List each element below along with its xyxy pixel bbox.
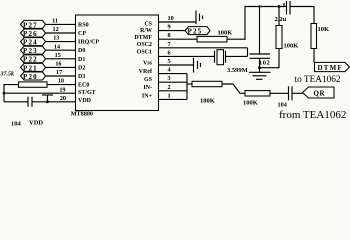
wire R4 to C3 [270,92,289,94]
svg-text:2: 2 [168,84,171,91]
svg-text:11: 11 [52,18,58,25]
wire OSC1 pin 6 [159,55,215,57]
port P26 [21,29,46,38]
svg-text:CS: CS [144,22,152,28]
port P25 [185,27,210,36]
wire GS pin 3 [159,81,188,83]
svg-text:18: 18 [58,78,64,85]
node rail/102 [258,5,260,7]
svg-text:P25: P25 [188,28,203,36]
wire pin19 ST/GT [4,92,76,94]
wire VRef pin 4 [159,73,188,75]
wire R2 to top rail [227,7,287,40]
resistor R5 100K vertical [276,7,298,50]
node junction ESt/StGT [3,92,6,95]
resistor R4 100K [243,91,270,107]
svg-text:10: 10 [168,15,174,22]
svg-text:3: 3 [168,75,171,82]
crystal Y1 3.599M [215,50,248,74]
capacitor C1 104 [11,97,32,128]
svg-text:P27: P27 [23,21,38,29]
svg-text:1: 1 [168,92,171,99]
node rail/100K [278,5,281,8]
ground under 102 [249,68,271,80]
svg-text:P23: P23 [23,47,38,55]
svg-text:14: 14 [54,43,60,50]
svg-text:100K: 100K [218,30,233,37]
svg-text:100K: 100K [243,100,258,107]
svg-text:EC0: EC0 [78,83,89,89]
svg-text:180K: 180K [200,98,215,105]
wire P23 to chip [46,49,76,51]
port P23 [21,46,46,55]
power VDD symbol [29,95,53,127]
svg-text:10K: 10K [318,26,330,33]
svg-text:CP: CP [78,31,86,37]
resistor R2 100K [197,30,232,42]
node 102 bottom [258,66,261,69]
svg-text:12: 12 [53,26,59,33]
IC U1 MT8880 chip body [71,15,159,118]
wire P27 to chip [46,23,76,25]
wire crystal right [226,55,248,57]
port P22 [21,55,46,64]
svg-text:OSC2: OSC2 [137,42,152,48]
svg-text:37.5k: 37.5k [0,71,14,77]
svg-text:DTMF: DTMF [318,64,343,72]
ground bars at CS [196,11,203,25]
svg-text:16: 16 [55,61,61,68]
svg-text:IN-: IN- [143,85,152,91]
wire R1 to pin18 EC0 [47,84,76,86]
wire OSC2 pin 7 [159,47,248,49]
svg-text:VDD: VDD [29,120,43,127]
svg-text:ST/GT: ST/GT [78,90,96,96]
svg-text:15: 15 [55,52,61,59]
svg-text:R/W: R/W [140,28,152,34]
svg-text:104: 104 [11,121,22,128]
wire Vss pin 5 [159,64,194,66]
svg-text:GS: GS [144,77,153,83]
wire CS pin 10 [159,21,197,23]
svg-text:13: 13 [53,35,59,42]
wire 180K diagonal down [222,84,245,93]
svg-text:D3: D3 [78,74,85,80]
svg-text:D2: D2 [78,65,85,71]
wire IN- pin 2 [159,90,188,92]
svg-text:8: 8 [168,32,171,39]
svg-text:5: 5 [168,58,171,65]
port P27 [21,20,46,29]
svg-text:Vss: Vss [143,61,153,67]
ground bars at Vss [194,58,201,73]
wire P20 to chip [46,75,76,77]
svg-text:to TEA1062: to TEA1062 [295,75,341,85]
svg-text:DTMF: DTMF [134,35,152,41]
wire P22 to chip [46,58,76,60]
svg-text:VDD: VDD [78,98,92,104]
svg-text:P26: P26 [23,30,38,38]
capacitor C3 104 [278,86,293,108]
wire feedback vertical [186,74,188,100]
svg-text:19: 19 [59,86,65,93]
svg-text:OSC1: OSC1 [137,50,152,56]
svg-text:P21: P21 [23,64,38,72]
wire OSC loop vertical [247,48,249,57]
svg-text:100K: 100K [284,43,299,50]
wire C1 to chip VDD pin20 [32,101,76,103]
svg-text:QR: QR [314,90,326,98]
capacitor C2 2.2u electrolytic [275,1,291,23]
svg-text:2.2u: 2.2u [275,16,287,23]
wire R/W pin 9 [159,30,186,32]
wire R6 to DTMF port [313,49,315,63]
svg-text:MT8880: MT8880 [71,111,93,118]
svg-text:4: 4 [168,67,171,74]
wire R1 left corner down [4,85,19,102]
wire P21 to chip [46,66,76,68]
port P24 [21,38,46,47]
resistor R3 180K [192,81,222,104]
port DTMF output [315,62,350,71]
svg-text:RS0: RS0 [78,22,89,28]
wire node to R5 [260,49,280,68]
port P20 [21,72,46,81]
svg-text:104: 104 [278,102,287,109]
svg-text:P24: P24 [23,39,38,47]
svg-text:IRQ/CP: IRQ/CP [78,40,99,46]
svg-text:D0: D0 [78,48,85,54]
wire P24 to chip [46,41,76,43]
capacitor C4 102 [250,7,271,68]
svg-text:17: 17 [56,69,62,76]
resistor R6 10K vertical [311,24,329,49]
resistor R1 37.5k [0,71,47,87]
svg-text:IN+: IN+ [142,94,153,100]
svg-text:20: 20 [60,95,66,102]
wire stub to 180K [187,83,192,85]
svg-text:VRef: VRef [139,69,153,75]
svg-text:D1: D1 [78,57,85,63]
wire rail right [290,7,314,24]
svg-text:P20: P20 [23,73,38,81]
svg-text:from TEA1062: from TEA1062 [279,109,346,121]
wire C3 to QR port [292,92,303,94]
wire VDD row left [4,101,28,103]
svg-text:3.599M: 3.599M [227,67,248,74]
svg-text:6: 6 [168,49,171,56]
svg-text:P22: P22 [23,56,38,64]
port QR [303,87,335,98]
wire IN+ pin 1 [159,98,188,100]
port P21 [21,63,46,72]
wire DTMF pin 8 [159,38,198,40]
svg-text:9: 9 [168,24,171,31]
svg-text:102: 102 [259,60,270,67]
svg-text:7: 7 [168,41,171,48]
wire P26 to chip [46,32,76,34]
